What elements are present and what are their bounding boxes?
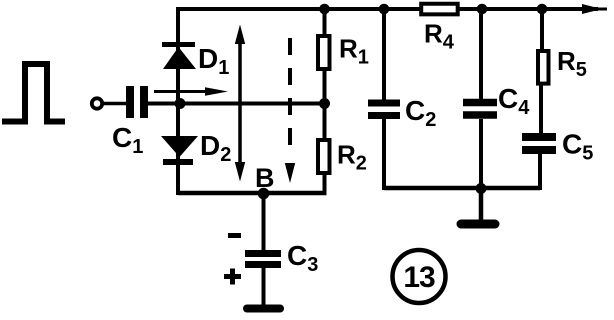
resistor R2 xyxy=(318,140,330,173)
dashed line with down arrow xyxy=(285,38,295,183)
wire to right ground xyxy=(479,188,484,221)
svg-text:13: 13 xyxy=(403,261,435,294)
node dot top R1 xyxy=(319,4,330,15)
bottom right wire xyxy=(384,186,540,191)
wire input to C1 xyxy=(103,102,127,106)
ground under C3 xyxy=(247,305,280,313)
arrow vertical double-headed xyxy=(235,25,245,182)
svg-text:B: B xyxy=(255,163,275,193)
wire node B down to C3 xyxy=(262,193,266,251)
resistor R5 xyxy=(538,51,549,84)
node B dot xyxy=(258,188,270,200)
node dot top C4 xyxy=(477,4,488,15)
bottom left wire xyxy=(178,191,327,196)
wire C3 to ground xyxy=(262,268,266,306)
node dot top C2 xyxy=(379,4,390,15)
wire C5 to bottom xyxy=(538,154,542,190)
capacitor C1 xyxy=(126,86,134,118)
wire C2 branch xyxy=(382,9,386,101)
arrow horizontal at node xyxy=(154,87,228,95)
minus sign xyxy=(228,233,241,238)
input terminal circle xyxy=(92,98,102,108)
wire C4 branch xyxy=(479,9,483,101)
plus sign xyxy=(224,269,241,285)
capacitor C2 xyxy=(368,100,400,107)
top wire xyxy=(178,7,598,11)
node junction dot at C1/diodes xyxy=(175,98,186,109)
wire R1/R2 branch vertical xyxy=(323,9,327,193)
node dot bottom C4/ground xyxy=(476,183,487,194)
capacitor C4 xyxy=(463,99,497,107)
node dot main wire / R branch xyxy=(319,98,330,109)
diode D2 xyxy=(161,136,198,165)
ground right xyxy=(461,220,495,229)
top wire output arrow xyxy=(582,4,602,14)
wire left branch vertical xyxy=(176,7,180,195)
wire R5 branch top xyxy=(540,9,544,50)
wire R5 to C5 xyxy=(539,85,543,135)
input pulse symbol xyxy=(2,64,65,122)
diode D1 xyxy=(162,42,196,69)
node dot top R5 xyxy=(537,4,548,15)
circled figure number 13 xyxy=(393,250,446,303)
resistor R4 xyxy=(421,4,458,15)
wire C1 to R1 branch xyxy=(148,102,326,106)
capacitor C5 xyxy=(522,133,556,141)
resistor R1 xyxy=(318,36,330,69)
capacitor C3 xyxy=(245,250,281,257)
